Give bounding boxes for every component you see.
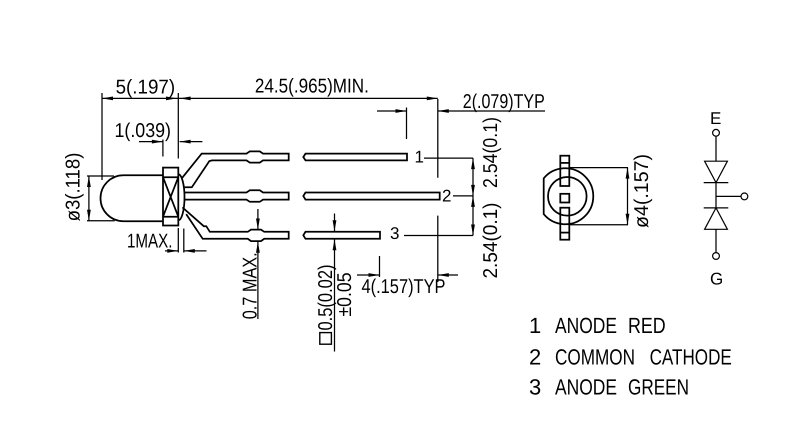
svg-text:COMMON: COMMON	[555, 344, 635, 369]
svg-text:4(.157)TYP: 4(.157)TYP	[362, 276, 446, 298]
dim phi3 line + arrows	[88, 176, 90, 221]
diode D2 (anode green) triangle	[705, 208, 728, 229]
svg-text:5(.197): 5(.197)	[116, 76, 176, 98]
svg-text:1: 1	[529, 313, 541, 338]
lead 1 long segment	[303, 154, 407, 161]
dim 0.5 upper arrow at lead3	[334, 214, 336, 232]
top view lead 3 tab divider	[560, 232, 569, 234]
svg-text:0.7 MAX.: 0.7 MAX.	[240, 252, 262, 319]
dim 2TYP right arrow + leader under text	[438, 110, 545, 112]
dim 0.7MAX lower arrow + leader	[257, 242, 259, 319]
dim 4TYP: extension line at lead3 tip	[379, 256, 381, 277]
flange X cross	[163, 177, 178, 217]
svg-text:2.54(0.1): 2.54(0.1)	[480, 203, 502, 279]
dim phi3: extension ticks	[87, 176, 115, 221]
dim 1(.039): extension line	[162, 140, 164, 157]
top view lead 2 pad	[560, 194, 569, 203]
top view lead 1 tab	[560, 156, 569, 186]
svg-text:2: 2	[442, 187, 451, 206]
dim 5(.197) arrowheads	[102, 97, 177, 101]
LED flange	[163, 168, 178, 226]
common cathode junction wire	[716, 195, 741, 197]
common cathode terminal circle	[741, 193, 748, 200]
pin 2 leader	[453, 195, 473, 197]
terminal E circle	[713, 129, 720, 136]
svg-text:3: 3	[529, 375, 541, 400]
dim 24.5 arrowheads	[180, 97, 438, 101]
dim 2.54 arrowheads	[471, 158, 475, 235]
dim 5(.197): extension line left	[101, 93, 103, 180]
LED dome body	[101, 175, 163, 221]
wire E to diode D1	[715, 136, 717, 161]
svg-text:2(.079)TYP: 2(.079)TYP	[463, 91, 545, 113]
top view inner dome circle	[548, 177, 587, 216]
extension line at lead2 tip x=437.8 (gap at lead 2)	[437, 99, 439, 282]
svg-text:ø3(.118): ø3(.118)	[62, 153, 84, 222]
diode D1 (anode red) triangle	[705, 161, 728, 182]
lead 1 short segment (anode red, bent up)	[182, 151, 289, 187]
lead 2 short segment (common cathode, straight)	[184, 190, 288, 202]
wire D1 to D2 through junction	[715, 183, 717, 208]
diode D1 cathode bar	[704, 182, 729, 184]
dim line y=98.4	[102, 97, 438, 99]
pin 3 leader	[404, 235, 473, 237]
svg-text:ANODE: ANODE	[555, 313, 617, 338]
svg-text:CATHODE: CATHODE	[650, 344, 732, 369]
svg-text:E: E	[710, 109, 721, 128]
lead 3 long segment	[303, 232, 380, 239]
dim 5/24.5 shared extension line at flange right	[177, 93, 179, 159]
svg-text:2: 2	[529, 344, 541, 369]
dim 2.54 line	[472, 158, 474, 235]
wire D2 to G	[715, 229, 717, 252]
lead 2 long segment	[303, 193, 439, 200]
dim 1(.039) left arrow+line	[139, 141, 163, 143]
dim 1(.039) right arrow+line	[180, 141, 203, 143]
pin 1 leader	[424, 157, 473, 159]
svg-text:ANODE: ANODE	[555, 375, 617, 400]
flange inner horizontals	[163, 177, 178, 217]
top view lead 3 tab	[560, 208, 569, 240]
svg-text:ø4(.157): ø4(.157)	[631, 154, 653, 228]
dim 0.7MAX upper arrow at lead3 kink	[257, 209, 259, 230]
square symbol of 0.5(0.02)	[320, 333, 332, 345]
svg-text:2.54(0.1): 2.54(0.1)	[480, 117, 502, 188]
dim 1MAX: extension lines	[178, 228, 184, 253]
dim 2TYP left arrow	[377, 110, 407, 112]
dim 4TYP right arrow	[438, 274, 458, 276]
lead 3 short segment (anode green, bent down)	[182, 207, 288, 241]
top view outer flange circle with flat	[544, 168, 594, 224]
dim 4TYP left arrow	[357, 274, 380, 276]
dim 0.5 lower arrow + leader	[334, 239, 336, 351]
dim 1MAX arrows	[165, 250, 207, 252]
top view lead 1 tab divider	[560, 162, 569, 164]
terminal G circle	[713, 253, 720, 260]
svg-text:GREEN: GREEN	[628, 375, 689, 400]
diode D2 cathode bar	[704, 207, 729, 209]
dim phi4 line + arrows	[627, 168, 629, 225]
dim phi4 extension lines	[569, 168, 628, 225]
svg-text:3: 3	[390, 224, 399, 243]
svg-text:G: G	[710, 270, 723, 289]
svg-text:24.5(.965)MIN.: 24.5(.965)MIN.	[255, 76, 369, 98]
svg-text:1(.039): 1(.039)	[115, 120, 172, 142]
svg-text:±0.05: ±0.05	[334, 273, 356, 317]
svg-text:1: 1	[415, 148, 424, 167]
epoxy meniscus bulge	[178, 174, 184, 220]
dim 2TYP: extension line at lead1 tip	[406, 108, 408, 140]
svg-text:1MAX.: 1MAX.	[127, 231, 173, 253]
svg-text:RED: RED	[628, 313, 666, 338]
